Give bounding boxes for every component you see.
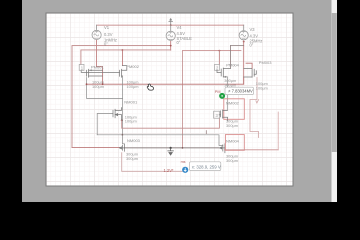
svg-text:PM004: PM004 (226, 63, 239, 68)
wire bottom dark rail (125, 147, 220, 149)
selection box NM004 (225, 135, 244, 151)
svg-text:100μm: 100μm (127, 84, 139, 89)
wire PM002 to NM001 (122, 76, 124, 135)
wire PM003 gate pink (250, 78, 259, 138)
wire right vertical (277, 112, 279, 150)
svg-text:≠ 7.83034MV: ≠ 7.83034MV (228, 89, 253, 94)
svg-text:300μm: 300μm (126, 156, 138, 161)
transistor PM001 (81, 69, 119, 77)
svg-text:NM004: NM004 (226, 139, 240, 144)
svg-text:0°: 0° (104, 41, 108, 46)
pin box 1 (79, 64, 84, 70)
svg-text:100μm: 100μm (256, 85, 268, 90)
wire mid red rail (87, 77, 244, 84)
pin box 3 (214, 111, 220, 118)
svg-text:x: 328.9, 259 V: x: 328.9, 259 V (192, 164, 221, 169)
right scrollbar strip (332, 0, 338, 202)
tooltip 1 (225, 87, 254, 94)
pin box 2 (215, 64, 220, 70)
transistor NM004 (bottom right) (220, 144, 225, 153)
wire vdd rail (97, 24, 244, 26)
wire 2-box stub (218, 51, 220, 65)
wire D (231, 45, 244, 68)
svg-text:1.2V*: 1.2V* (164, 168, 174, 173)
svg-text:0°: 0° (177, 40, 181, 45)
gray chrome (22, 0, 337, 202)
transistor NM003 (120, 144, 125, 151)
cursor hand (147, 84, 153, 90)
source V3 (243, 25, 245, 30)
svg-text:NM003: NM003 (127, 138, 141, 143)
svg-text:0.3V: 0.3V (104, 32, 113, 37)
probe green (215, 90, 225, 99)
svg-text:300μm: 300μm (226, 158, 238, 163)
svg-text:PM001: PM001 (91, 65, 104, 70)
tooltip 2 (181, 160, 221, 173)
transistor PM002 (120, 66, 127, 78)
svg-text:NM001: NM001 (124, 100, 138, 105)
wire C (183, 50, 242, 52)
svg-text:300μm: 300μm (226, 123, 238, 128)
svg-text:PM: PM (215, 90, 221, 94)
svg-text:NM002: NM002 (226, 101, 240, 106)
pin box numbers (81, 65, 219, 118)
svg-text:V3: V3 (250, 27, 256, 32)
svg-text:100μm: 100μm (92, 84, 104, 89)
svg-text:PM003: PM003 (259, 60, 272, 65)
ground (168, 148, 174, 151)
source V1 (96, 25, 98, 29)
junction tick (205, 131, 207, 134)
svg-text:300μm: 300μm (224, 83, 236, 88)
transistor NM002 (mid right) (219, 110, 227, 121)
transistor PM004 (upper right) (217, 68, 231, 78)
svg-text:PM002: PM002 (126, 64, 139, 69)
svg-text:0°: 0° (250, 43, 254, 48)
svg-text:V1: V1 (104, 25, 110, 30)
svg-text:V4: V4 (177, 25, 183, 30)
transistor PM003 (mirrored) (244, 68, 257, 77)
wire PM002 drop (121, 50, 123, 66)
wire upper-left drop to NM003 (122, 135, 124, 144)
wire PM003 elbow (246, 63, 252, 68)
power flag (169, 19, 173, 25)
wire B (81, 50, 171, 65)
wire output node (pink) (122, 153, 184, 172)
wire V3 vertical (243, 41, 245, 84)
wire mid-right dark (97, 135, 223, 146)
labels (104, 25, 262, 48)
node junction vdd-V4 (170, 24, 172, 26)
wire NM001 gate net (97, 114, 113, 135)
wire NM001 source link (pink) (122, 118, 220, 128)
wire probe drop (226, 77, 228, 111)
wire bottom right pink (225, 149, 279, 151)
transistor NM001 (113, 108, 122, 121)
svg-text:100μm: 100μm (125, 119, 137, 124)
source V4 (170, 25, 172, 30)
svg-text:ms: ms (181, 160, 186, 164)
selection box NM002 (224, 99, 245, 120)
wire A (72, 46, 171, 148)
wire bottom-left pink rail (72, 146, 120, 148)
wire V1 drain vertical (97, 40, 103, 84)
canvas (46, 13, 293, 186)
wire C vertical (182, 51, 184, 148)
